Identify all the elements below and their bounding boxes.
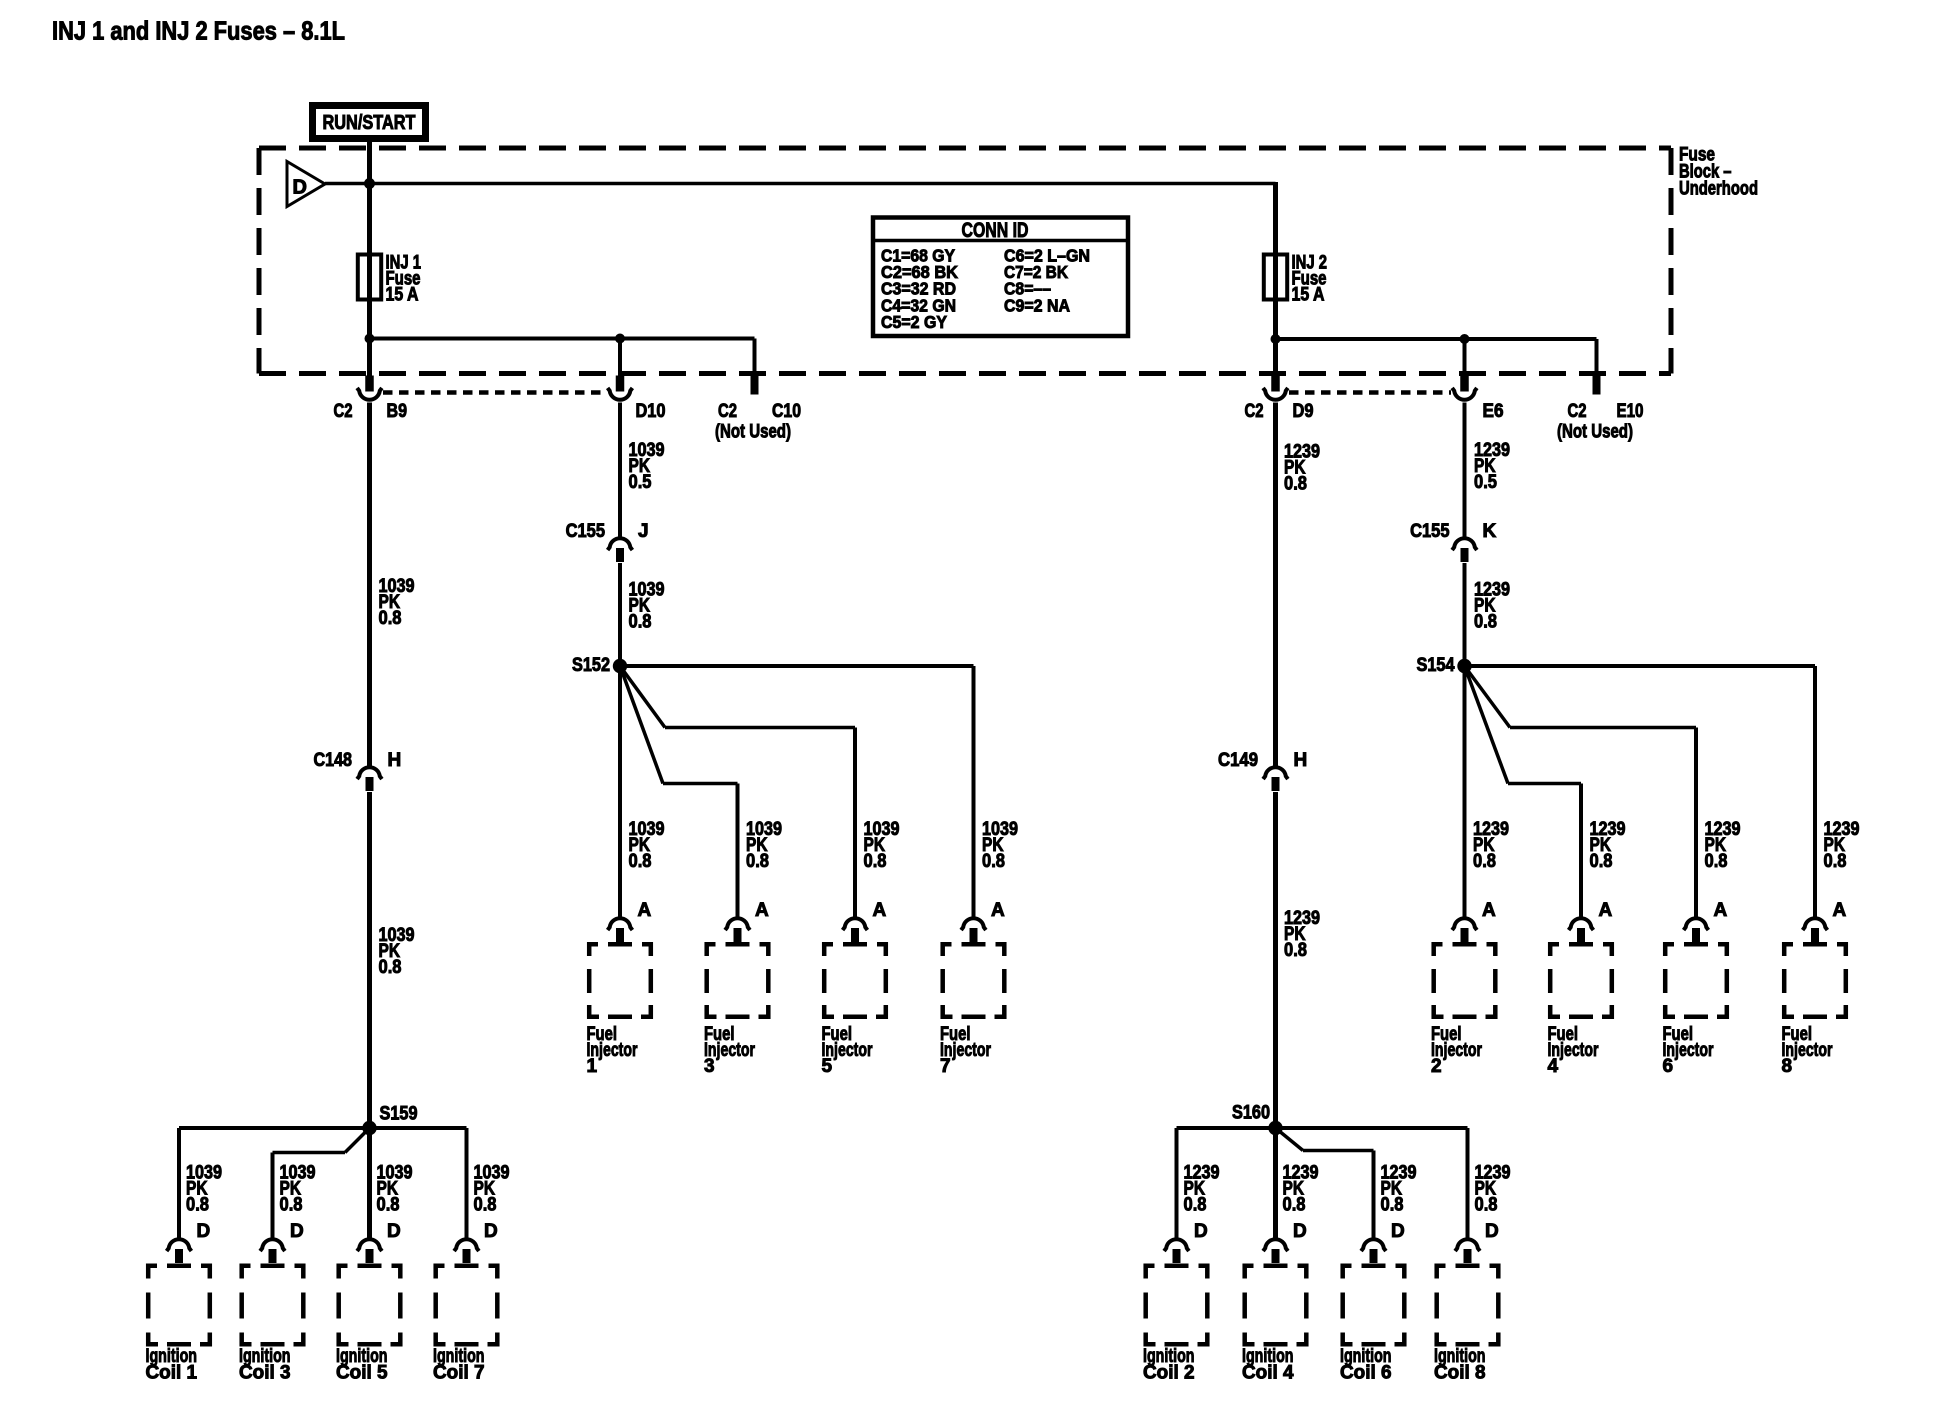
ignition coil 8 box xyxy=(1435,1264,1501,1347)
label: Fuse Block - Underhood xyxy=(1679,145,1758,200)
label: Fuel Injector 3 xyxy=(704,1024,755,1077)
ignition coil 7 box xyxy=(434,1264,500,1347)
svg-text:0.8: 0.8 xyxy=(379,957,402,978)
svg-text:0.8: 0.8 xyxy=(1284,940,1307,961)
label: Ignition Coil 4 xyxy=(1242,1346,1294,1384)
svg-text:A: A xyxy=(873,900,887,921)
svg-text:RUN/START: RUN/START xyxy=(323,112,416,134)
fuse INJ 1 15 A xyxy=(358,254,381,300)
wire: INJ2 fuse output branch to E6/E10 xyxy=(1276,337,1597,341)
connector pin A of fuel injector 3 xyxy=(725,900,769,942)
svg-text:C5=2 GY: C5=2 GY xyxy=(881,312,947,332)
connector C155 pin K xyxy=(1410,521,1496,562)
junction dot at E6 column xyxy=(1460,334,1470,344)
svg-text:6: 6 xyxy=(1663,1056,1674,1077)
label: wire 1039 PK 0.8 to ignition coil 5 xyxy=(377,1163,413,1216)
svg-text:E10: E10 xyxy=(1617,401,1644,422)
ignition coil 5 box xyxy=(337,1264,403,1347)
svg-text:0.8: 0.8 xyxy=(377,1195,400,1216)
svg-text:0.8: 0.8 xyxy=(379,608,402,629)
svg-text:(Not Used): (Not Used) xyxy=(715,422,791,443)
svg-text:C2: C2 xyxy=(1568,401,1587,422)
label: Fuel Injector 2 xyxy=(1431,1024,1482,1077)
junction dot at D10 column xyxy=(615,334,625,344)
connector C2 pin D9 xyxy=(1245,376,1314,423)
label: Fuel Injector 6 xyxy=(1663,1024,1714,1077)
connector pin A of fuel injector 1 xyxy=(608,900,652,942)
connector pin D of ignition coil 1 xyxy=(167,1221,211,1263)
svg-text:D: D xyxy=(293,177,307,199)
svg-text:S160: S160 xyxy=(1232,1103,1270,1124)
connector pin A of fuel injector 7 xyxy=(961,900,1005,942)
wire: branch drop to C10 (not used) xyxy=(751,339,759,395)
svg-text:15 A: 15 A xyxy=(386,285,419,306)
label: wire 1039 PK 0.8 to fuel injector 1 xyxy=(629,819,665,872)
svg-text:5: 5 xyxy=(822,1056,833,1077)
svg-text:0.8: 0.8 xyxy=(629,851,652,872)
wire: S160 to ignition coil 2 xyxy=(1177,1128,1276,1238)
wire 1239 PK 0.5: E6 to C155 xyxy=(1465,403,1511,538)
wire: INJ1 fuse output branch to D10/C10 xyxy=(370,337,755,341)
fuel injector 7 box xyxy=(941,942,1007,1019)
breakout arrow D xyxy=(287,162,325,207)
connector C148 pin H xyxy=(314,750,402,791)
wire 1039 PK 0.5: D10 to C155 xyxy=(620,403,665,538)
fuse block - underhood dashed outline xyxy=(259,148,1671,374)
svg-text:Coil 4: Coil 4 xyxy=(1242,1363,1294,1384)
junction at RUN/START trunk and D wire xyxy=(364,178,375,189)
svg-text:C149: C149 xyxy=(1218,750,1258,771)
svg-text:Coil 2: Coil 2 xyxy=(1143,1363,1195,1384)
label: Ignition Coil 7 xyxy=(433,1346,485,1384)
wire: S159 to ignition coil 3 xyxy=(273,1128,370,1238)
svg-text:0.8: 0.8 xyxy=(1705,851,1728,872)
wire: S152 to fuel injector 1 xyxy=(618,666,622,917)
svg-text:INJ 1 and INJ 2 Fuses – 8.1L: INJ 1 and INJ 2 Fuses – 8.1L xyxy=(52,16,345,46)
svg-text:0.8: 0.8 xyxy=(280,1195,303,1216)
label: wire 1039 PK 0.8 to fuel injector 5 xyxy=(864,819,900,872)
svg-text:J: J xyxy=(638,521,649,542)
svg-text:Coil 7: Coil 7 xyxy=(433,1363,485,1384)
label: wire 1239 PK 0.8 to ignition coil 6 xyxy=(1381,1163,1417,1216)
svg-text:C10: C10 xyxy=(772,401,801,422)
svg-text:D: D xyxy=(484,1221,498,1242)
wire: S159 to ignition coil 5 (straight down) xyxy=(367,1128,372,1238)
CONN ID table xyxy=(873,218,1128,337)
splice S152 xyxy=(572,655,627,676)
connector body dashed line C2 (D9-E6) xyxy=(1289,390,1451,395)
label: Fuel Injector 8 xyxy=(1782,1024,1833,1077)
svg-text:0.8: 0.8 xyxy=(746,851,769,872)
svg-text:D10: D10 xyxy=(636,401,666,422)
label: wire 1039 PK 0.8 to ignition coil 3 xyxy=(280,1163,316,1216)
connector body dashed line C2 (B9-D10) xyxy=(383,390,606,395)
svg-text:0.8: 0.8 xyxy=(1474,612,1497,633)
svg-text:0.8: 0.8 xyxy=(1184,1195,1207,1216)
fuse INJ 2 15 A xyxy=(1264,254,1287,300)
connector pin D of ignition coil 7 xyxy=(454,1221,498,1263)
label: wire 1039 PK 0.8 to ignition coil 1 xyxy=(186,1163,222,1216)
svg-text:E6: E6 xyxy=(1483,401,1504,422)
svg-text:Coil 1: Coil 1 xyxy=(146,1363,198,1384)
label: wire 1039 PK 0.8 to fuel injector 7 xyxy=(982,819,1018,872)
connector C155 pin J xyxy=(566,521,649,562)
svg-text:(Not Used): (Not Used) xyxy=(1557,422,1633,443)
svg-text:D: D xyxy=(1194,1221,1208,1242)
svg-text:15 A: 15 A xyxy=(1292,285,1325,306)
fuel injector 4 box xyxy=(1548,942,1614,1019)
wire: S159 to ignition coil 1 xyxy=(179,1128,370,1238)
connector pin A of fuel injector 6 xyxy=(1684,900,1728,942)
label: wire 1239 PK 0.8 to ignition coil 4 xyxy=(1283,1163,1319,1216)
connector pin A of fuel injector 5 xyxy=(843,900,887,942)
svg-text:1: 1 xyxy=(587,1056,598,1077)
ignition coil 6 box xyxy=(1341,1264,1407,1347)
connector pin A of fuel injector 4 xyxy=(1569,900,1613,942)
svg-text:Underhood: Underhood xyxy=(1679,179,1758,200)
label: wire 1239 PK 0.8 to fuel injector 8 xyxy=(1824,819,1860,872)
connector pin A of fuel injector 2 xyxy=(1452,900,1496,942)
svg-text:0.8: 0.8 xyxy=(474,1195,497,1216)
fuel injector 1 box xyxy=(587,942,653,1019)
splice S159 xyxy=(362,1104,417,1136)
svg-text:D: D xyxy=(387,1221,401,1242)
wire: S160 to ignition coil 8 xyxy=(1276,1128,1468,1238)
label: Ignition Coil 3 xyxy=(239,1346,291,1384)
label: Ignition Coil 1 xyxy=(146,1346,198,1384)
wire 1239 PK 0.8: C155 to S154 xyxy=(1465,563,1511,666)
svg-text:0.8: 0.8 xyxy=(186,1195,209,1216)
connector pin D of ignition coil 2 xyxy=(1164,1221,1208,1263)
svg-text:0.8: 0.8 xyxy=(1824,851,1847,872)
label: Ignition Coil 6 xyxy=(1340,1346,1392,1384)
connector pin D of ignition coil 8 xyxy=(1455,1221,1499,1263)
svg-text:A: A xyxy=(1599,900,1613,921)
svg-text:S154: S154 xyxy=(1417,655,1455,676)
svg-text:C2: C2 xyxy=(718,401,737,422)
splice S154 xyxy=(1417,655,1472,676)
svg-text:0.8: 0.8 xyxy=(1590,851,1613,872)
fuel injector 3 box xyxy=(705,942,771,1019)
svg-text:C2: C2 xyxy=(334,401,353,422)
svg-text:7: 7 xyxy=(940,1056,951,1077)
connector C2 pin E6 xyxy=(1452,376,1503,423)
connector C149 pin H xyxy=(1218,750,1307,791)
fuel injector 5 box xyxy=(822,942,888,1019)
junction dot at trunk/branch xyxy=(365,334,375,344)
label: Ignition Coil 2 xyxy=(1143,1346,1195,1384)
ignition coil 4 box xyxy=(1243,1264,1309,1347)
svg-text:0.8: 0.8 xyxy=(629,612,652,633)
wire: branch drop to E10 (not used) xyxy=(1593,339,1601,395)
svg-text:C2: C2 xyxy=(1245,401,1264,422)
wire 1039 PK 0.8: C155 to S152 xyxy=(620,563,665,666)
svg-text:D: D xyxy=(1391,1221,1405,1242)
label: Fuel Injector 5 xyxy=(822,1024,873,1077)
svg-text:0.5: 0.5 xyxy=(629,472,652,493)
connector C2 pin D10 xyxy=(608,376,666,423)
label: wire 1239 PK 0.8 to fuel injector 6 xyxy=(1705,819,1741,872)
label: Fuel Injector 1 xyxy=(587,1024,638,1077)
label: wire 1039 PK 0.8 to fuel injector 3 xyxy=(746,819,782,872)
connector C2 pin B9 xyxy=(334,376,408,423)
svg-text:0.8: 0.8 xyxy=(864,851,887,872)
fuel injector 6 box xyxy=(1663,942,1729,1019)
wire: S152 to fuel injector 5 xyxy=(620,666,855,917)
wire 1039 PK 0.8: B9 to C148 xyxy=(370,403,415,767)
svg-text:Coil 6: Coil 6 xyxy=(1340,1363,1392,1384)
svg-text:2: 2 xyxy=(1431,1056,1442,1077)
svg-text:A: A xyxy=(638,900,652,921)
svg-text:0.8: 0.8 xyxy=(1475,1195,1498,1216)
svg-text:A: A xyxy=(1482,900,1496,921)
label: INJ 1 Fuse 15 A xyxy=(386,253,422,306)
connector pin D of ignition coil 6 xyxy=(1361,1221,1405,1263)
wire: S160 to ignition coil 6 xyxy=(1276,1128,1374,1238)
wire: S154 to fuel injector 2 xyxy=(1463,666,1467,917)
label: Fuel Injector 7 xyxy=(940,1024,991,1077)
svg-text:3: 3 xyxy=(704,1056,715,1077)
svg-text:A: A xyxy=(1833,900,1847,921)
wire: branch drop to E6 xyxy=(1463,339,1467,376)
label: wire 1239 PK 0.8 to ignition coil 8 xyxy=(1475,1163,1511,1216)
svg-text:CONN ID: CONN ID xyxy=(962,219,1029,242)
svg-text:8: 8 xyxy=(1782,1056,1793,1077)
svg-text:Coil 8: Coil 8 xyxy=(1434,1363,1486,1384)
label: INJ 2 Fuse 15 A xyxy=(1292,253,1328,306)
svg-text:S152: S152 xyxy=(572,655,610,676)
svg-text:Coil 5: Coil 5 xyxy=(336,1363,388,1384)
power feed box RUN/START xyxy=(309,102,429,142)
splice S160 xyxy=(1232,1103,1283,1136)
svg-text:B9: B9 xyxy=(387,401,408,422)
svg-text:H: H xyxy=(1294,750,1308,771)
wire: INJ 2 fuse feed trunk (right) xyxy=(1273,182,1278,376)
ignition coil 3 box xyxy=(240,1264,306,1347)
label: Fuel Injector 4 xyxy=(1548,1024,1599,1077)
connector pin D of ignition coil 4 xyxy=(1263,1221,1307,1263)
wire: S154 to fuel injector 8 xyxy=(1465,666,1816,917)
svg-text:0.8: 0.8 xyxy=(1473,851,1496,872)
wire: S152 to fuel injector 7 xyxy=(620,666,974,917)
label: wire 1039 PK 0.8 to ignition coil 7 xyxy=(474,1163,510,1216)
svg-text:D9: D9 xyxy=(1293,401,1314,422)
wire: S160 to ignition coil 4 (straight down) xyxy=(1273,1128,1278,1238)
wire 1239 PK 0.8: C149 to S160 xyxy=(1276,792,1321,1238)
wire: breakout D to INJ 2 fuse xyxy=(325,182,1276,186)
svg-text:D: D xyxy=(290,1221,304,1242)
wire 1239 PK 0.8: D9 to C149 xyxy=(1276,403,1321,767)
svg-text:0.8: 0.8 xyxy=(1283,1195,1306,1216)
fuel injector 8 box xyxy=(1782,942,1848,1019)
connector pin D of ignition coil 5 xyxy=(357,1221,401,1263)
svg-text:A: A xyxy=(991,900,1005,921)
svg-text:D: D xyxy=(1293,1221,1307,1242)
ignition coil 2 box xyxy=(1144,1264,1210,1347)
wire: S152 to fuel injector 3 xyxy=(620,666,738,917)
label: Ignition Coil 8 xyxy=(1434,1346,1486,1384)
svg-text:S159: S159 xyxy=(380,1104,418,1125)
svg-text:C155: C155 xyxy=(566,521,606,542)
svg-text:0.5: 0.5 xyxy=(1474,472,1497,493)
svg-text:C9=2 NA: C9=2 NA xyxy=(1004,295,1070,315)
svg-text:C155: C155 xyxy=(1410,521,1450,542)
svg-text:H: H xyxy=(388,750,402,771)
wire: branch drop to D10 xyxy=(618,339,622,376)
wire: RUN/START feed trunk (left) xyxy=(367,142,372,376)
svg-text:D: D xyxy=(1485,1221,1499,1242)
svg-text:A: A xyxy=(1714,900,1728,921)
svg-text:0.8: 0.8 xyxy=(1284,474,1307,495)
wire: S154 to fuel injector 4 xyxy=(1465,666,1582,917)
wire: S159 to ignition coil 7 xyxy=(370,1128,467,1238)
connector pin D of ignition coil 3 xyxy=(260,1221,304,1263)
fuel injector 2 box xyxy=(1432,942,1498,1019)
svg-text:K: K xyxy=(1483,521,1497,542)
svg-text:D: D xyxy=(197,1221,211,1242)
svg-text:4: 4 xyxy=(1548,1056,1559,1077)
svg-text:A: A xyxy=(755,900,769,921)
label: Ignition Coil 5 xyxy=(336,1346,388,1384)
label: wire 1239 PK 0.8 to fuel injector 2 xyxy=(1473,819,1509,872)
svg-text:Coil 3: Coil 3 xyxy=(239,1363,291,1384)
junction dot at trunk/branch (right) xyxy=(1271,334,1281,344)
svg-text:0.8: 0.8 xyxy=(1381,1195,1404,1216)
svg-text:0.8: 0.8 xyxy=(982,851,1005,872)
wire 1039 PK 0.8: C148 to S159 xyxy=(370,792,415,1238)
ignition coil 1 box xyxy=(146,1264,212,1347)
svg-text:C148: C148 xyxy=(314,750,353,771)
label: wire 1239 PK 0.8 to ignition coil 2 xyxy=(1184,1163,1220,1216)
label: wire 1239 PK 0.8 to fuel injector 4 xyxy=(1590,819,1626,872)
connector pin A of fuel injector 8 xyxy=(1803,900,1847,942)
wire: S154 to fuel injector 6 xyxy=(1465,666,1697,917)
connector C2 pin C10 (not used) xyxy=(715,401,801,443)
connector C2 pin E10 (not used) xyxy=(1557,401,1644,443)
